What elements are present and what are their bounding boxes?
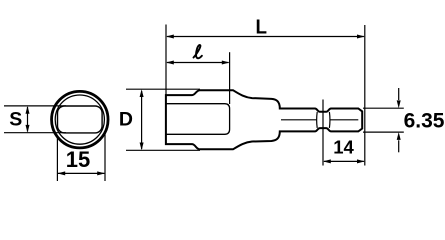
dimension D: bottom extension line [126, 149, 200, 151]
hex shank middle line (left of groove) [281, 119, 316, 121]
dimension L: left extension line (also socket face extension) [165, 25, 167, 96]
socket front view: outer circle [52, 91, 109, 148]
dimension 6.35: top arrowhead (down) [397, 100, 401, 108]
dimension S: arrow line [27, 107, 29, 132]
dimension 6.35: bottom arrowhead (up) [397, 132, 401, 140]
dimension 14: left arrowhead [323, 159, 331, 163]
dimension L: left arrowhead [166, 35, 174, 39]
dimension 6.35: bottom arrow stem [398, 140, 400, 152]
dimension 15: dimension line [58, 172, 104, 174]
dimension ell: dimension line [167, 62, 229, 64]
svg-text:15: 15 [66, 147, 90, 172]
dimension D: top extension line [126, 88, 200, 90]
socket front view: inner circle [55, 95, 104, 144]
dimension L: dimension line [167, 36, 364, 38]
dimension S: up arrowhead [26, 106, 30, 114]
dimension S: down arrowhead [26, 125, 30, 133]
dimension S: top extension line [4, 105, 66, 107]
svg-text:L: L [256, 17, 268, 39]
dimension 15: right arrowhead [97, 171, 105, 175]
dimension ell: right arrowhead [222, 61, 230, 65]
square drive hole (rounded rect) [58, 106, 103, 133]
dimension D: up arrowhead [140, 89, 144, 97]
hex shank middle line (right of groove) [330, 119, 358, 121]
dimension D: arrow line [141, 91, 143, 149]
dimension 6.35: bottom extension line [363, 131, 404, 133]
dimension D: down arrowhead [140, 143, 144, 151]
dimension 14: dimension line [324, 160, 364, 162]
dimension 15: right extension line [104, 132, 106, 181]
dimension S: bottom extension line [4, 132, 66, 134]
dimension ell: right extension line [229, 52, 231, 104]
dimension 14: groove center extension line [322, 100, 324, 166]
groove right side arc [328, 112, 331, 128]
dimension 14: right arrowhead [357, 159, 365, 163]
dimension ell: left arrowhead [166, 61, 174, 65]
dimension 15: left extension line [56, 138, 58, 181]
svg-text:S: S [9, 108, 22, 130]
svg-text:14: 14 [333, 137, 354, 158]
label ell (script l) [194, 45, 202, 58]
socket body outline (side view) [166, 90, 362, 149]
svg-text:D: D [119, 108, 133, 130]
dimension L: right extension line [364, 25, 366, 166]
dimension 15: left arrowhead [57, 171, 65, 175]
dimension 6.35: top extension line [363, 107, 404, 109]
internal cavity (thin line) [166, 104, 230, 135]
dimension 6.35: top arrow stem [398, 88, 400, 100]
groove left side arc [316, 112, 319, 128]
dimension L: right arrowhead [357, 35, 365, 39]
svg-text:6.35: 6.35 [404, 110, 445, 133]
